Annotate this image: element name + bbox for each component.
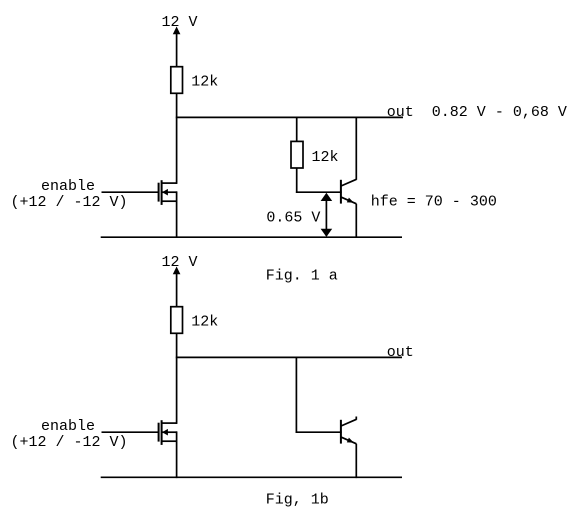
svg-text:enable: enable (41, 418, 95, 435)
svg-text:12k: 12k (191, 314, 218, 331)
svg-text:12k: 12k (312, 149, 339, 166)
svg-text:(+12 / -12 V): (+12 / -12 V) (11, 434, 128, 451)
svg-text:enable: enable (41, 178, 95, 195)
svg-text:out: out (387, 344, 414, 361)
svg-text:(+12 / -12 V): (+12 / -12 V) (11, 194, 128, 211)
svg-text:Fig. 1 a: Fig. 1 a (266, 268, 338, 285)
svg-text:hfe = 70 - 300: hfe = 70 - 300 (371, 193, 497, 210)
svg-text:out 0.82 V - 0,68 V: out 0.82 V - 0,68 V (387, 104, 567, 121)
svg-text:Fig, 1b: Fig, 1b (266, 491, 329, 508)
svg-text:0.65 V: 0.65 V (266, 209, 320, 226)
svg-text:12k: 12k (191, 74, 218, 91)
svg-text:12 V: 12 V (162, 14, 198, 31)
svg-text:12 V: 12 V (162, 254, 198, 271)
